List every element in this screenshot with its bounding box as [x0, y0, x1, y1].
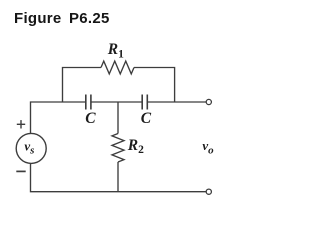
voltage source vs — [16, 133, 46, 163]
node: top output terminal — [206, 99, 211, 104]
resistor R2 — [112, 134, 124, 163]
svg-text:C: C — [85, 110, 96, 127]
wire: R1 branch left vertical riser — [63, 68, 102, 103]
wire: R1 branch right side with vertical drop — [134, 68, 175, 103]
wire: R2 top lead from middle junction — [117, 102, 119, 134]
svg-text:C: C — [141, 110, 152, 127]
resistor R1 — [101, 61, 134, 74]
capacitor C (right) — [142, 95, 147, 110]
svg-text:R2: R2 — [127, 137, 144, 156]
capacitor C (left) — [86, 95, 91, 110]
wire: cap C2 right plate to top output terminal — [147, 101, 206, 103]
wire: R2 bottom lead to bottom rail — [117, 162, 119, 192]
polarity plus sign — [17, 120, 25, 128]
wire: between capacitors (through R2 junction) — [91, 101, 142, 103]
node: bottom output terminal — [206, 189, 211, 194]
polarity minus sign — [16, 170, 25, 172]
wire: middle horizontal, left node to cap C1 left plate — [31, 102, 86, 134]
wire: bottom rail from source to bottom output terminal — [31, 163, 207, 191]
svg-text:vo: vo — [202, 138, 214, 156]
svg-text:R1: R1 — [107, 41, 124, 60]
svg-text:vs: vs — [24, 138, 34, 156]
